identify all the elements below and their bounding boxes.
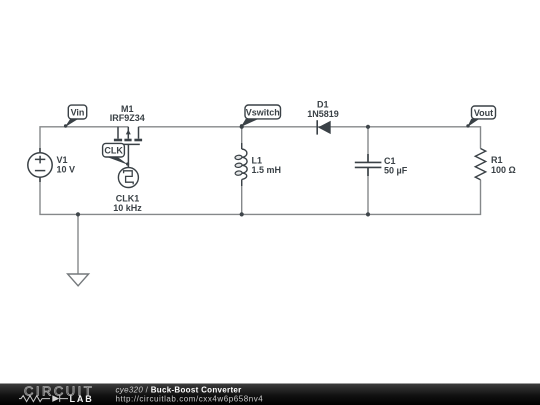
diode D1 — [316, 120, 318, 134]
svg-text:1N5819: 1N5819 — [307, 109, 339, 119]
svg-text:http://circuitlab.com/cxx4w6p6: http://circuitlab.com/cxx4w6p658nv4 — [116, 394, 264, 403]
ground — [68, 274, 89, 286]
inductor L1 — [242, 143, 247, 186]
wire top-left from V1 to MOSFET source — [40, 127, 128, 153]
node Vout flag — [467, 119, 479, 127]
svg-text:CLK: CLK — [104, 146, 123, 156]
svg-text:100 Ω: 100 Ω — [491, 165, 516, 175]
wire ground lead — [77, 214, 79, 274]
svg-text:50 µF: 50 µF — [384, 166, 408, 176]
wire top-right from MOSFET drain to R1 — [139, 127, 481, 149]
wire C1 column — [367, 127, 369, 215]
MOSFET M1 — [114, 127, 142, 168]
wire bottom rail — [40, 177, 481, 214]
svg-text:CLK1: CLK1 — [116, 194, 140, 204]
svg-text:V1: V1 — [57, 155, 68, 165]
logo squiggle resistor+diode — [19, 396, 50, 402]
svg-text:D1: D1 — [317, 99, 329, 109]
svg-text:Vswitch: Vswitch — [246, 107, 280, 117]
voltage source V1 — [28, 148, 52, 182]
svg-text:1.5 mH: 1.5 mH — [252, 165, 282, 175]
wire L1 column — [241, 127, 243, 215]
svg-text:IRF9Z34: IRF9Z34 — [110, 113, 145, 123]
svg-text:LAB: LAB — [70, 394, 94, 404]
junction dot C1 top — [366, 125, 370, 129]
svg-text:R1: R1 — [491, 155, 503, 165]
capacitor C1 — [355, 154, 382, 176]
junction dot bottom-ground — [76, 212, 80, 216]
node CLK flag — [106, 157, 128, 165]
svg-text:10 V: 10 V — [57, 165, 76, 175]
junction dot C1 bottom — [366, 212, 370, 216]
node Vswitch flag — [241, 119, 259, 127]
node Vin flag — [65, 119, 79, 127]
svg-text:cye320 / Buck-Boost Converter: cye320 / Buck-Boost Converter — [116, 385, 242, 394]
resistor R1 — [475, 149, 485, 180]
junction dot L1 top — [240, 125, 244, 129]
svg-text:Vout: Vout — [474, 108, 493, 118]
clock source CLK1 — [118, 168, 138, 188]
svg-text:Vin: Vin — [71, 107, 85, 117]
junction dot L1 bottom — [240, 212, 244, 216]
svg-text:10 kHz: 10 kHz — [113, 203, 142, 213]
